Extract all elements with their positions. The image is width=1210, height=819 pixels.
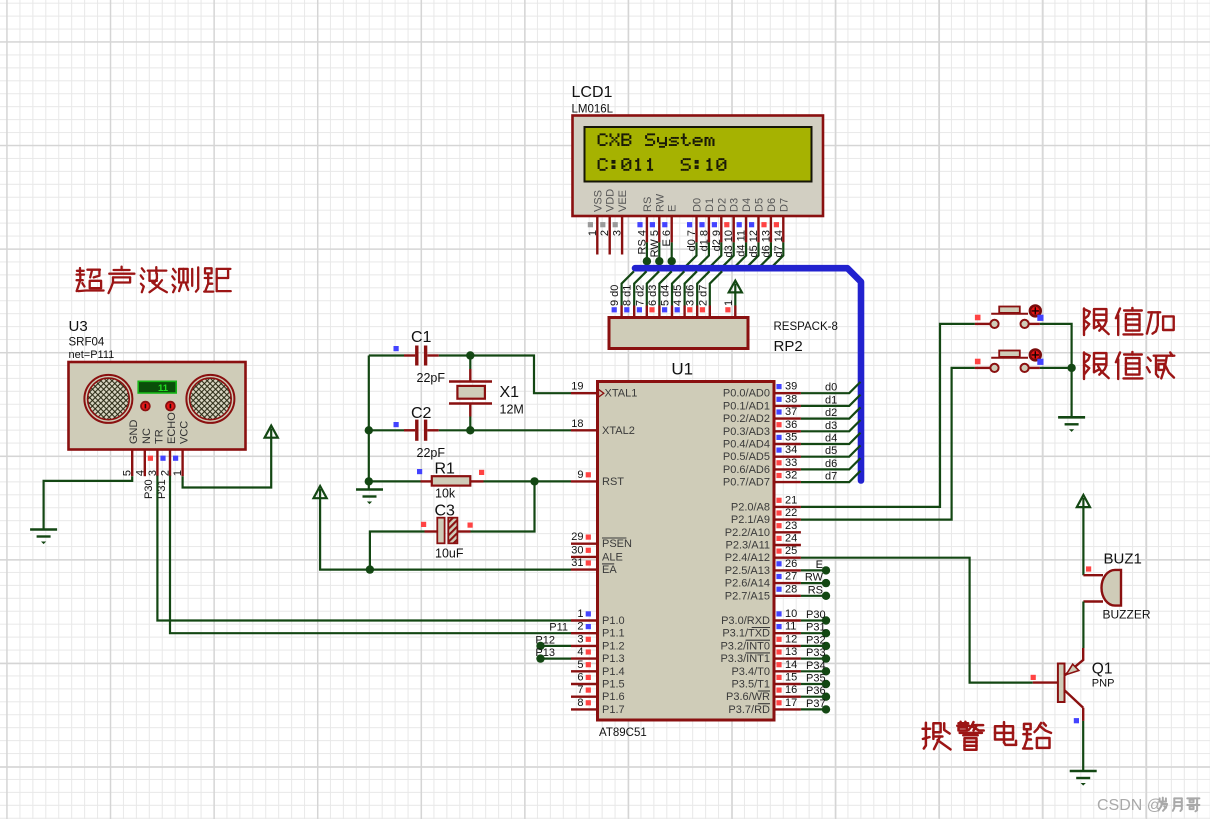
svg-text:16: 16 bbox=[785, 684, 797, 696]
svg-text:14: 14 bbox=[785, 659, 797, 671]
svg-text:7: 7 bbox=[577, 684, 583, 696]
svg-text:d2: d2 bbox=[825, 407, 837, 419]
svg-text:d5: d5 bbox=[825, 445, 837, 457]
svg-text:28: 28 bbox=[785, 583, 797, 595]
LCD pins 1-3 (VSS,VDD,VEE) stubs bbox=[596, 217, 598, 255]
svg-text:34: 34 bbox=[785, 444, 797, 456]
svg-text:6: 6 bbox=[577, 672, 583, 684]
svg-text:9 d0: 9 d0 bbox=[609, 285, 621, 306]
power arrow EA bbox=[314, 486, 327, 498]
U1 left pin EA (31) bbox=[571, 568, 598, 570]
resistor R1 bbox=[432, 476, 471, 485]
capacitor C2 bbox=[415, 420, 418, 441]
LCD screen bbox=[585, 127, 812, 182]
svg-text:22pF: 22pF bbox=[417, 371, 446, 385]
U1 P1.2 net stub P12 bbox=[541, 645, 572, 647]
svg-text:P3.4/T0: P3.4/T0 bbox=[731, 666, 770, 678]
svg-text:P3.5/T1: P3.5/T1 bbox=[731, 679, 770, 691]
U3 indicator LEDs bbox=[141, 402, 150, 411]
svg-text:35: 35 bbox=[785, 432, 797, 444]
svg-text:BUZZER: BUZZER bbox=[1103, 608, 1151, 622]
svg-text:30: 30 bbox=[571, 544, 583, 556]
svg-text:P35: P35 bbox=[806, 673, 826, 685]
svg-text:RST: RST bbox=[602, 476, 624, 488]
junction dot buttons ground rail bbox=[1067, 364, 1075, 372]
svg-text:2 d7: 2 d7 bbox=[697, 285, 709, 306]
svg-text:D5: D5 bbox=[754, 198, 766, 212]
chinese label limit plus bbox=[1083, 309, 1085, 336]
RP2 pin 1 with power arrow bbox=[734, 306, 736, 318]
svg-text:2: 2 bbox=[160, 470, 172, 476]
svg-text:4 d5: 4 d5 bbox=[672, 285, 684, 306]
svg-text:22: 22 bbox=[785, 507, 797, 519]
LCD screen text line1 bbox=[600, 133, 602, 135]
svg-text:P1.7: P1.7 bbox=[602, 704, 625, 716]
capacitor C1 bbox=[415, 346, 418, 366]
svg-text:XTAL1: XTAL1 bbox=[605, 388, 638, 400]
svg-text:P1.0: P1.0 bbox=[602, 615, 625, 627]
svg-text:1: 1 bbox=[577, 608, 583, 620]
wire U3 GND to ground bbox=[44, 476, 133, 529]
transistor Q1 body bar bbox=[1058, 664, 1065, 703]
svg-text:P0.3/AD3: P0.3/AD3 bbox=[723, 426, 770, 438]
push button at y=323 bbox=[975, 323, 991, 325]
U1 left pin PSEN (29) bbox=[571, 543, 598, 545]
wire C2 right to XTAL2 bbox=[427, 429, 439, 431]
wire C2 left to rail bbox=[369, 429, 404, 431]
U1 left pin RST (9) bbox=[571, 480, 598, 482]
svg-text:1: 1 bbox=[587, 230, 599, 236]
buzzer terminals bbox=[1083, 574, 1103, 576]
svg-text:P1.3: P1.3 bbox=[602, 653, 625, 665]
svg-text:10: 10 bbox=[785, 608, 797, 620]
svg-text:P0.4/AD4: P0.4/AD4 bbox=[723, 439, 770, 451]
svg-text:E 6: E 6 bbox=[661, 230, 673, 247]
wire C3 left to EA row bbox=[425, 530, 438, 532]
wire collector to ground bbox=[1082, 721, 1084, 771]
svg-text:3 d6: 3 d6 bbox=[685, 285, 697, 306]
svg-text:d4: d4 bbox=[825, 433, 837, 445]
svg-text:12M: 12M bbox=[500, 403, 524, 417]
svg-text:D4: D4 bbox=[741, 198, 753, 212]
ground below rail bbox=[356, 488, 383, 491]
ground left of U3 bbox=[30, 528, 57, 531]
svg-text:d2 9: d2 9 bbox=[711, 230, 723, 251]
svg-text:RP2: RP2 bbox=[774, 338, 803, 355]
svg-text:P2.4/A12: P2.4/A12 bbox=[725, 552, 770, 564]
U1 P1.3 net stub P13 bbox=[541, 657, 572, 659]
U3 pins 5-1 stubs bbox=[131, 450, 133, 477]
junction dots RS RW E on bus bbox=[643, 257, 651, 265]
svg-text:CSDN @: CSDN @ bbox=[1097, 797, 1163, 814]
wire U3 ECHO to U1 P1.1 bbox=[170, 476, 571, 634]
svg-text:d0 7: d0 7 bbox=[686, 230, 698, 251]
wire P2.0 pin21 to button1 bbox=[801, 324, 975, 507]
left rail wire C1-C2-R1 bbox=[368, 356, 370, 482]
junction dot rail-C2 bbox=[365, 426, 373, 434]
svg-text:P2.5/A13: P2.5/A13 bbox=[725, 565, 770, 577]
RP2 pins 9-2 wires to bus bbox=[620, 306, 622, 318]
svg-text:LCD1: LCD1 bbox=[572, 84, 613, 101]
svg-text:C2: C2 bbox=[411, 405, 432, 422]
svg-text:P37: P37 bbox=[806, 698, 826, 710]
svg-text:D0: D0 bbox=[692, 198, 704, 212]
capacitor C3 electrolytic bbox=[437, 518, 444, 544]
svg-text:RESPACK-8: RESPACK-8 bbox=[774, 321, 838, 333]
svg-text:39: 39 bbox=[785, 381, 797, 393]
svg-text:R1: R1 bbox=[435, 461, 456, 478]
svg-text:1: 1 bbox=[172, 470, 184, 476]
svg-text:D7: D7 bbox=[778, 198, 790, 212]
svg-text:d7: d7 bbox=[825, 471, 837, 483]
U1 left pins P1.0-P1.7 (1-8) bbox=[571, 619, 598, 621]
wire power to buzzer top bbox=[1082, 506, 1084, 575]
svg-text:19: 19 bbox=[571, 381, 583, 393]
svg-text:2: 2 bbox=[599, 230, 611, 236]
svg-text:12: 12 bbox=[785, 633, 797, 645]
svg-text:P2.0/A8: P2.0/A8 bbox=[731, 501, 770, 513]
U1 pin 26 E net stub bbox=[801, 569, 826, 571]
svg-text:P30: P30 bbox=[806, 609, 826, 621]
svg-text:NC: NC bbox=[141, 428, 153, 444]
svg-text:SRF04: SRF04 bbox=[69, 337, 105, 349]
microcontroller U1 AT89C51 body bbox=[598, 382, 775, 721]
transistor Q1 emitter bbox=[1082, 648, 1084, 660]
svg-text:5: 5 bbox=[122, 470, 134, 476]
svg-text:31: 31 bbox=[571, 557, 583, 569]
svg-text:RS 4: RS 4 bbox=[636, 230, 648, 254]
svg-text:21: 21 bbox=[785, 494, 797, 506]
svg-text:D3: D3 bbox=[729, 198, 741, 212]
LCD screen text line2 bbox=[600, 158, 602, 160]
push button at y=367 bbox=[975, 367, 991, 369]
svg-text:8 d1: 8 d1 bbox=[622, 285, 634, 306]
svg-text:E: E bbox=[667, 205, 679, 212]
U3 distance display bbox=[138, 381, 176, 393]
svg-text:d6 13: d6 13 bbox=[760, 230, 772, 258]
U1 pin 27 RW net stub bbox=[801, 582, 826, 584]
svg-text:ECHO: ECHO bbox=[166, 412, 178, 444]
wire C1 right to XTAL1 bbox=[427, 354, 439, 356]
svg-text:7 d2: 7 d2 bbox=[634, 285, 646, 306]
svg-text:3: 3 bbox=[612, 230, 624, 236]
svg-text:11: 11 bbox=[158, 383, 169, 394]
svg-text:XTAL2: XTAL2 bbox=[602, 425, 635, 437]
svg-text:E: E bbox=[816, 559, 823, 571]
wire U3 TR to U1 P1.0 bbox=[157, 476, 571, 621]
LCD LM016L body bbox=[573, 116, 824, 217]
svg-text:RS: RS bbox=[808, 584, 823, 596]
U1 left pin XTAL2 (18) bbox=[571, 429, 598, 431]
svg-text:P2.3/A11: P2.3/A11 bbox=[726, 540, 770, 552]
svg-text:RS: RS bbox=[642, 197, 654, 212]
chinese label alarm circuit bbox=[924, 723, 926, 749]
svg-text:27: 27 bbox=[785, 571, 797, 583]
wire EA to power arrow bbox=[320, 498, 571, 570]
svg-text:VSS: VSS bbox=[592, 190, 604, 212]
svg-text:d3 10: d3 10 bbox=[723, 230, 735, 258]
svg-text:38: 38 bbox=[785, 393, 797, 405]
svg-text:P33: P33 bbox=[806, 647, 826, 659]
svg-text:11: 11 bbox=[785, 621, 796, 633]
svg-text:P3.6/WR: P3.6/WR bbox=[726, 691, 770, 703]
svg-text:d5 12: d5 12 bbox=[748, 230, 760, 258]
svg-text:P0.7/AD7: P0.7/AD7 bbox=[723, 477, 770, 489]
svg-text:P0.2/AD2: P0.2/AD2 bbox=[723, 413, 770, 425]
svg-text:P1.5: P1.5 bbox=[602, 679, 625, 691]
svg-text:P12: P12 bbox=[535, 635, 555, 647]
junction dot C1-X1 bbox=[466, 351, 474, 359]
svg-text:P1.6: P1.6 bbox=[602, 691, 625, 703]
svg-text:P1.4: P1.4 bbox=[602, 666, 625, 678]
transistor Q1 base wire bbox=[1033, 681, 1058, 683]
svg-text:36: 36 bbox=[785, 419, 797, 431]
svg-text:P0.5/AD5: P0.5/AD5 bbox=[723, 451, 770, 463]
svg-text:4: 4 bbox=[134, 470, 146, 476]
svg-text:ALE: ALE bbox=[602, 551, 623, 563]
svg-text:GND: GND bbox=[128, 420, 140, 445]
wire P2.1 pin22 to button2 bbox=[801, 368, 975, 520]
LCD pins 4-6 (RS,RW,E) stubs and wires to bus bbox=[646, 217, 648, 243]
svg-text:P13: P13 bbox=[535, 647, 555, 659]
svg-text:P32: P32 bbox=[806, 634, 826, 646]
svg-text:d6: d6 bbox=[825, 458, 837, 470]
svg-text:32: 32 bbox=[785, 470, 797, 482]
wire button2 right to ground bbox=[1040, 368, 1072, 417]
svg-text:RW 5: RW 5 bbox=[649, 230, 661, 257]
svg-text:22pF: 22pF bbox=[417, 446, 446, 460]
svg-text:P34: P34 bbox=[806, 660, 826, 672]
ground below transistor bbox=[1070, 770, 1097, 773]
svg-text:2: 2 bbox=[577, 621, 583, 633]
wire button1 right to ground rail bbox=[1040, 324, 1072, 368]
svg-text:15: 15 bbox=[785, 672, 797, 684]
svg-text:d1: d1 bbox=[825, 394, 837, 406]
ground below buttons bbox=[1058, 416, 1085, 419]
junction dot R1-RST-C3 bbox=[530, 477, 538, 485]
svg-text:P2.1/A9: P2.1/A9 bbox=[731, 514, 770, 526]
svg-text:24: 24 bbox=[785, 533, 797, 545]
svg-text:26: 26 bbox=[785, 558, 797, 570]
wire C1 left to rail bbox=[369, 354, 404, 356]
power arrow U3 VCC bbox=[265, 426, 278, 438]
wire C3 right up to RST row bbox=[457, 530, 470, 532]
svg-text:U3: U3 bbox=[69, 318, 88, 335]
svg-text:P3.3/INT1: P3.3/INT1 bbox=[720, 653, 770, 665]
svg-text:5 d4: 5 d4 bbox=[660, 285, 672, 306]
svg-text:Q1: Q1 bbox=[1092, 661, 1113, 678]
svg-text:RW: RW bbox=[654, 193, 666, 212]
svg-text:net=P111: net=P111 bbox=[69, 349, 115, 361]
svg-text:33: 33 bbox=[785, 457, 797, 469]
svg-text:X1: X1 bbox=[500, 384, 520, 401]
wire R1 left bbox=[369, 480, 421, 482]
svg-text:3: 3 bbox=[577, 633, 583, 645]
svg-text:d7 14: d7 14 bbox=[773, 230, 785, 258]
U1 right pins P3.0-P3.7 (10-17) with net stubs P30-P37 bbox=[774, 619, 801, 621]
svg-text:BUZ1: BUZ1 bbox=[1104, 551, 1142, 568]
svg-text:PNP: PNP bbox=[1092, 678, 1115, 690]
svg-text:29: 29 bbox=[571, 531, 583, 543]
junction dot C3-EA bbox=[366, 565, 374, 573]
wire R1 right to RST bbox=[470, 480, 483, 482]
svg-text:RW: RW bbox=[805, 572, 824, 584]
svg-text:4: 4 bbox=[577, 646, 583, 658]
svg-text:P11: P11 bbox=[549, 622, 568, 634]
chinese title ultrasonic ranging bbox=[79, 268, 81, 275]
svg-text:D2: D2 bbox=[716, 198, 728, 212]
bus wire from LCD to P0 (thick blue) bbox=[635, 268, 861, 480]
svg-text:d0: d0 bbox=[825, 382, 837, 394]
svg-text:18: 18 bbox=[571, 418, 583, 430]
svg-text:P1.1: P1.1 bbox=[602, 628, 625, 640]
svg-text:D1: D1 bbox=[704, 198, 716, 212]
svg-text:P3.7/RD: P3.7/RD bbox=[728, 704, 770, 716]
svg-text:U1: U1 bbox=[671, 360, 693, 379]
svg-text:25: 25 bbox=[785, 545, 797, 557]
svg-text:C1: C1 bbox=[411, 329, 432, 346]
svg-text:10k: 10k bbox=[435, 487, 456, 501]
svg-text:P1.2: P1.2 bbox=[602, 640, 625, 652]
resistor pack RP2 body bbox=[609, 318, 748, 349]
svg-text:5: 5 bbox=[577, 659, 583, 671]
svg-text:P2.2/A10: P2.2/A10 bbox=[725, 527, 770, 539]
svg-text:P36: P36 bbox=[806, 685, 826, 697]
svg-text:VEE: VEE bbox=[617, 190, 629, 212]
junction dot X1-XTAL2 bbox=[466, 426, 474, 434]
crystal X1 bbox=[469, 356, 471, 370]
svg-text:17: 17 bbox=[785, 697, 797, 709]
svg-text:23: 23 bbox=[785, 520, 797, 532]
wire buzzer bottom to transistor emitter bbox=[1082, 602, 1084, 649]
ultrasonic sensor U3 SRF04 body bbox=[69, 362, 246, 450]
svg-text:P0.0/AD0: P0.0/AD0 bbox=[723, 388, 770, 400]
chinese label limit minus bbox=[1083, 353, 1085, 380]
svg-text:13: 13 bbox=[785, 646, 797, 658]
svg-text:P30: P30 bbox=[143, 479, 155, 499]
svg-text:d3: d3 bbox=[825, 420, 837, 432]
svg-text:3: 3 bbox=[147, 470, 159, 476]
svg-text:1: 1 bbox=[723, 300, 735, 306]
svg-text:37: 37 bbox=[785, 406, 797, 418]
svg-text:AT89C51: AT89C51 bbox=[599, 727, 647, 739]
svg-text:P3.1/TXD: P3.1/TXD bbox=[722, 628, 770, 640]
svg-text:10uF: 10uF bbox=[435, 547, 464, 561]
svg-text:EA: EA bbox=[602, 564, 617, 576]
svg-text:d1 8: d1 8 bbox=[698, 230, 710, 251]
svg-text:P0.1/AD1: P0.1/AD1 bbox=[723, 400, 770, 412]
LCD pins 7-14 (D0-D7) stubs and wires to bus bbox=[695, 217, 697, 243]
svg-text:d4 11: d4 11 bbox=[736, 230, 748, 257]
svg-text:TR: TR bbox=[153, 429, 165, 444]
svg-text:9: 9 bbox=[577, 469, 583, 481]
U1 left pin ALE (30) bbox=[571, 556, 598, 558]
svg-text:P2.7/A15: P2.7/A15 bbox=[725, 590, 770, 602]
transistor Q1 collector bbox=[1065, 690, 1084, 707]
svg-text:8: 8 bbox=[577, 697, 583, 709]
svg-text:PSEN: PSEN bbox=[602, 538, 632, 550]
wire P2.4 pin25 to transistor base bbox=[801, 558, 1033, 683]
U1 left pin XTAL1 (19) bbox=[571, 392, 598, 394]
power arrow above buzzer bbox=[1077, 495, 1090, 507]
svg-text:VCC: VCC bbox=[179, 421, 191, 444]
svg-text:P31: P31 bbox=[806, 622, 826, 634]
buzzer BUZ1 body bbox=[1102, 570, 1122, 606]
U1 right pins P2.0-P2.7 (21-28) bbox=[774, 506, 801, 508]
svg-text:LM016L: LM016L bbox=[572, 104, 614, 116]
U1 right pins P0.0-P0.7 (39-32) with wires to bus bbox=[774, 392, 801, 394]
wire U3 VCC to power arrow bbox=[183, 438, 272, 488]
U1 pin 28 RS net stub bbox=[801, 595, 826, 597]
junction dot rail-R1 bbox=[365, 477, 373, 485]
svg-text:P3.2/INT0: P3.2/INT0 bbox=[720, 640, 770, 652]
svg-text:P2.6/A14: P2.6/A14 bbox=[725, 578, 770, 590]
svg-text:D6: D6 bbox=[766, 198, 778, 212]
svg-text:P0.6/AD6: P0.6/AD6 bbox=[723, 464, 770, 476]
svg-text:VDD: VDD bbox=[605, 189, 617, 212]
U3 transducer right bbox=[186, 375, 234, 423]
svg-text:P3.0/RXD: P3.0/RXD bbox=[721, 615, 770, 627]
svg-text:6 d3: 6 d3 bbox=[647, 285, 659, 306]
